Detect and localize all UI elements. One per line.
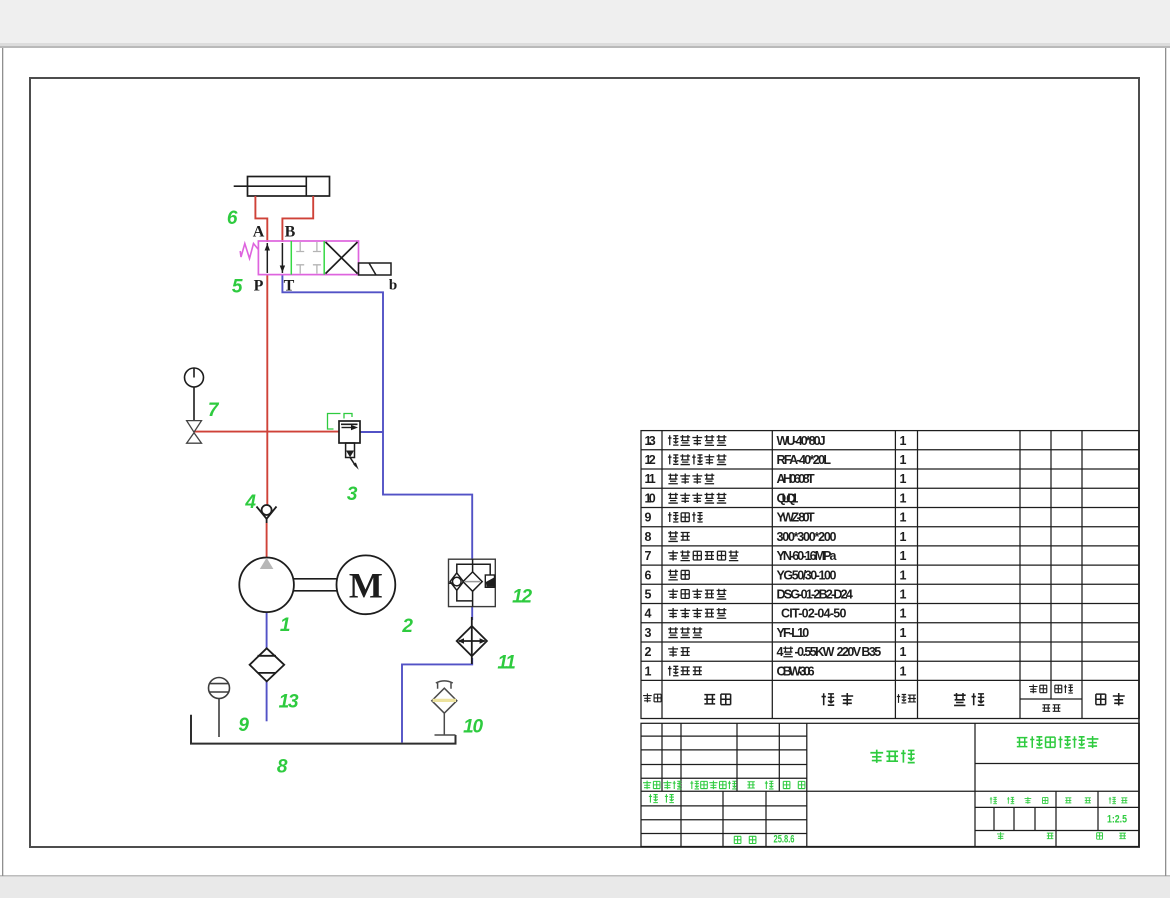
- air filter 10 yellow element: [433, 699, 456, 702]
- svg-text:1: 1: [280, 615, 290, 636]
- sheet row 共 张 第 张: [997, 832, 1004, 840]
- svg-text:AH0608T: AH0608T: [777, 472, 815, 486]
- svg-text:RFA-40*20L: RFA-40*20L: [777, 453, 832, 467]
- svg-text:8: 8: [645, 530, 652, 544]
- wire red P line upper: [266, 274, 268, 505]
- svg-text:5: 5: [645, 588, 652, 602]
- company 晋中润德液压: [1017, 738, 1028, 747]
- svg-text:11: 11: [497, 653, 515, 674]
- svg-text:10: 10: [463, 717, 483, 738]
- valve 5 left position flow lines: [265, 243, 286, 273]
- svg-text:1: 1: [900, 530, 907, 544]
- wire red P line lower: [266, 523, 268, 558]
- svg-text:1: 1: [900, 645, 907, 659]
- svg-text:1: 1: [900, 626, 907, 640]
- svg-text:1: 1: [900, 664, 907, 678]
- svg-text:-0.55KW 220V B35: -0.55KW 220V B35: [795, 645, 882, 659]
- wire blue cooler 11 to tank: [402, 658, 472, 743]
- svg-text:6: 6: [227, 208, 238, 229]
- wire blue pump suction lower: [266, 682, 268, 722]
- svg-text:9: 9: [645, 511, 652, 525]
- svg-text:T: T: [284, 278, 295, 295]
- svg-text:3: 3: [347, 484, 358, 505]
- svg-text:9: 9: [238, 715, 249, 736]
- title block grid: [641, 723, 1139, 846]
- air cooler 11: [457, 617, 487, 664]
- svg-text:2: 2: [401, 616, 413, 637]
- svg-text:12: 12: [512, 587, 532, 608]
- svg-text:11: 11: [645, 472, 656, 486]
- relief valve 3 internal arrow: [342, 427, 352, 429]
- suction filter 13: [250, 648, 285, 681]
- svg-text:YG50/30-100: YG50/30-100: [777, 568, 837, 582]
- page left edge: [2, 48, 3, 876]
- wire red cylinder left port to valve A: [255, 196, 267, 242]
- svg-text:CBW-306: CBW-306: [777, 664, 815, 678]
- svg-text:1: 1: [900, 492, 907, 506]
- cylinder 6 body: [248, 177, 330, 197]
- title block labels: [643, 736, 1127, 843]
- svg-text:8: 8: [277, 757, 288, 778]
- svg-text:1: 1: [900, 434, 907, 448]
- wire blue T return to filter 12: [282, 274, 472, 560]
- wire red gauge branch: [194, 431, 339, 433]
- valve 5 spring: [240, 244, 258, 259]
- check valve 4: [257, 505, 277, 523]
- svg-text:7: 7: [645, 549, 652, 563]
- svg-text:QUQ1: QUQ1: [777, 492, 799, 506]
- svg-text:4: 4: [244, 492, 256, 513]
- parts table grid: [641, 431, 1139, 719]
- pump 1 flow triangle: [260, 558, 274, 569]
- level gauge 9: [209, 678, 230, 738]
- svg-text:10: 10: [645, 492, 656, 506]
- svg-text:CIT-02-04-50: CIT-02-04-50: [781, 607, 846, 621]
- drawing title 原理图: [870, 750, 883, 763]
- relief valve 3 drain arrow: [350, 457, 356, 466]
- top grey band: [0, 0, 1170, 46]
- svg-text:B: B: [285, 224, 296, 241]
- relief valve 3 green pilot bracket: [328, 414, 353, 430]
- svg-text:1: 1: [900, 472, 907, 486]
- svg-text:1:2.5: 1:2.5: [1107, 814, 1127, 826]
- svg-text:13: 13: [279, 692, 299, 713]
- return filter 12 internal piping: [457, 564, 490, 575]
- svg-text:13: 13: [645, 434, 656, 448]
- svg-text:DSG-01-2B2-D24: DSG-01-2B2-D24: [777, 588, 853, 602]
- return filter 12 housing: [449, 559, 496, 606]
- scale header 图样标记 重量 比例: [990, 797, 997, 804]
- wire blue filter 12 to cooler 11: [471, 607, 473, 620]
- svg-text:4: 4: [777, 645, 784, 659]
- cylinder 6 rod: [234, 185, 307, 187]
- shutoff valve below gauge 7: [187, 421, 202, 444]
- svg-text:b: b: [389, 278, 397, 294]
- valve 5 centre position blocked-port marks: [296, 242, 321, 274]
- motor 2: [337, 555, 396, 614]
- wire red cylinder right port to valve B: [282, 196, 313, 242]
- svg-text:1: 1: [900, 453, 907, 467]
- drive shaft: [294, 579, 337, 591]
- pressure gauge 7: [185, 368, 204, 421]
- svg-text:YN-60-16MPa: YN-60-16MPa: [777, 549, 838, 563]
- svg-text:M: M: [349, 566, 383, 606]
- svg-text:300*300*200: 300*300*200: [777, 530, 837, 544]
- valve 5 solenoid b: [359, 263, 392, 275]
- wire blue relief valve outlet: [360, 431, 383, 433]
- return filter 12 clogging indicator: [485, 575, 494, 587]
- return filter 12 element: [449, 559, 491, 606]
- relief valve 3 body: [339, 421, 360, 443]
- air filter 10: [432, 681, 457, 735]
- wire blue pump suction upper: [266, 612, 268, 649]
- bottom grey band: [0, 876, 1170, 898]
- svg-text:WU-40*80J: WU-40*80J: [777, 434, 826, 448]
- svg-text:YF-L10: YF-L10: [777, 626, 810, 640]
- relief valve 3 drain stub: [346, 443, 355, 458]
- svg-text:1: 1: [900, 607, 907, 621]
- svg-text:6: 6: [645, 568, 652, 582]
- parts table rows: [645, 434, 907, 679]
- svg-text:1: 1: [900, 511, 907, 525]
- svg-text:2: 2: [645, 645, 652, 659]
- valve 5 section dividers: [291, 241, 324, 275]
- svg-text:12: 12: [645, 453, 656, 467]
- svg-text:1: 1: [645, 664, 652, 678]
- return filter 12 bypass check valve: [453, 577, 462, 586]
- svg-text:3: 3: [645, 626, 652, 640]
- svg-text:1: 1: [900, 588, 907, 602]
- svg-text:5: 5: [232, 277, 243, 298]
- svg-text:P: P: [254, 278, 264, 295]
- valve 5 crossed position: [326, 242, 358, 274]
- svg-text:A: A: [253, 224, 265, 241]
- cylinder 6 piston: [305, 177, 307, 197]
- svg-text:25.8.6: 25.8.6: [774, 834, 795, 846]
- svg-text:1: 1: [900, 549, 907, 563]
- svg-text:1: 1: [900, 568, 907, 582]
- valve 5 body: [258, 241, 358, 275]
- page right edge: [1165, 48, 1166, 876]
- parts table header: [643, 684, 1125, 711]
- svg-text:4: 4: [645, 607, 652, 621]
- tank 8: [191, 715, 456, 744]
- svg-text:YWZ-80T: YWZ-80T: [777, 511, 815, 525]
- pump 1: [239, 558, 294, 613]
